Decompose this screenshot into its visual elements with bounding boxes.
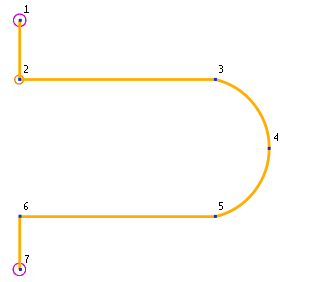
grip dot node 7 bbox=[19, 268, 22, 271]
label 7 bbox=[25, 255, 29, 263]
grip dot node 2 bbox=[18, 78, 21, 81]
arc segment 3-4-5 bbox=[216, 80, 270, 217]
wire segment 5-6 (horizontal bottom) bbox=[20, 215, 216, 218]
label 1 bbox=[24, 5, 29, 13]
label 5 bbox=[219, 202, 223, 210]
node 2 marker (orange circle) bbox=[15, 75, 24, 84]
wire segment 1-2 (vertical) bbox=[18, 20, 21, 79]
label 4 bbox=[274, 133, 278, 141]
node 1 start-point marker (magenta circle) bbox=[14, 14, 26, 26]
label 2 bbox=[24, 65, 28, 73]
grip dot node 3 bbox=[214, 78, 217, 81]
grip dot node 1 bbox=[19, 19, 22, 22]
grip dot node 4 bbox=[268, 147, 271, 150]
grip dot node 6 bbox=[19, 215, 22, 218]
node 7 end-point marker (magenta circle) bbox=[13, 263, 25, 275]
wire segment 2-3 (horizontal top) bbox=[20, 78, 216, 81]
wire segment 6-7 (vertical) bbox=[18, 217, 21, 270]
label 3 bbox=[219, 65, 223, 73]
label 6 bbox=[24, 202, 28, 210]
grip dot node 5 bbox=[214, 215, 217, 218]
